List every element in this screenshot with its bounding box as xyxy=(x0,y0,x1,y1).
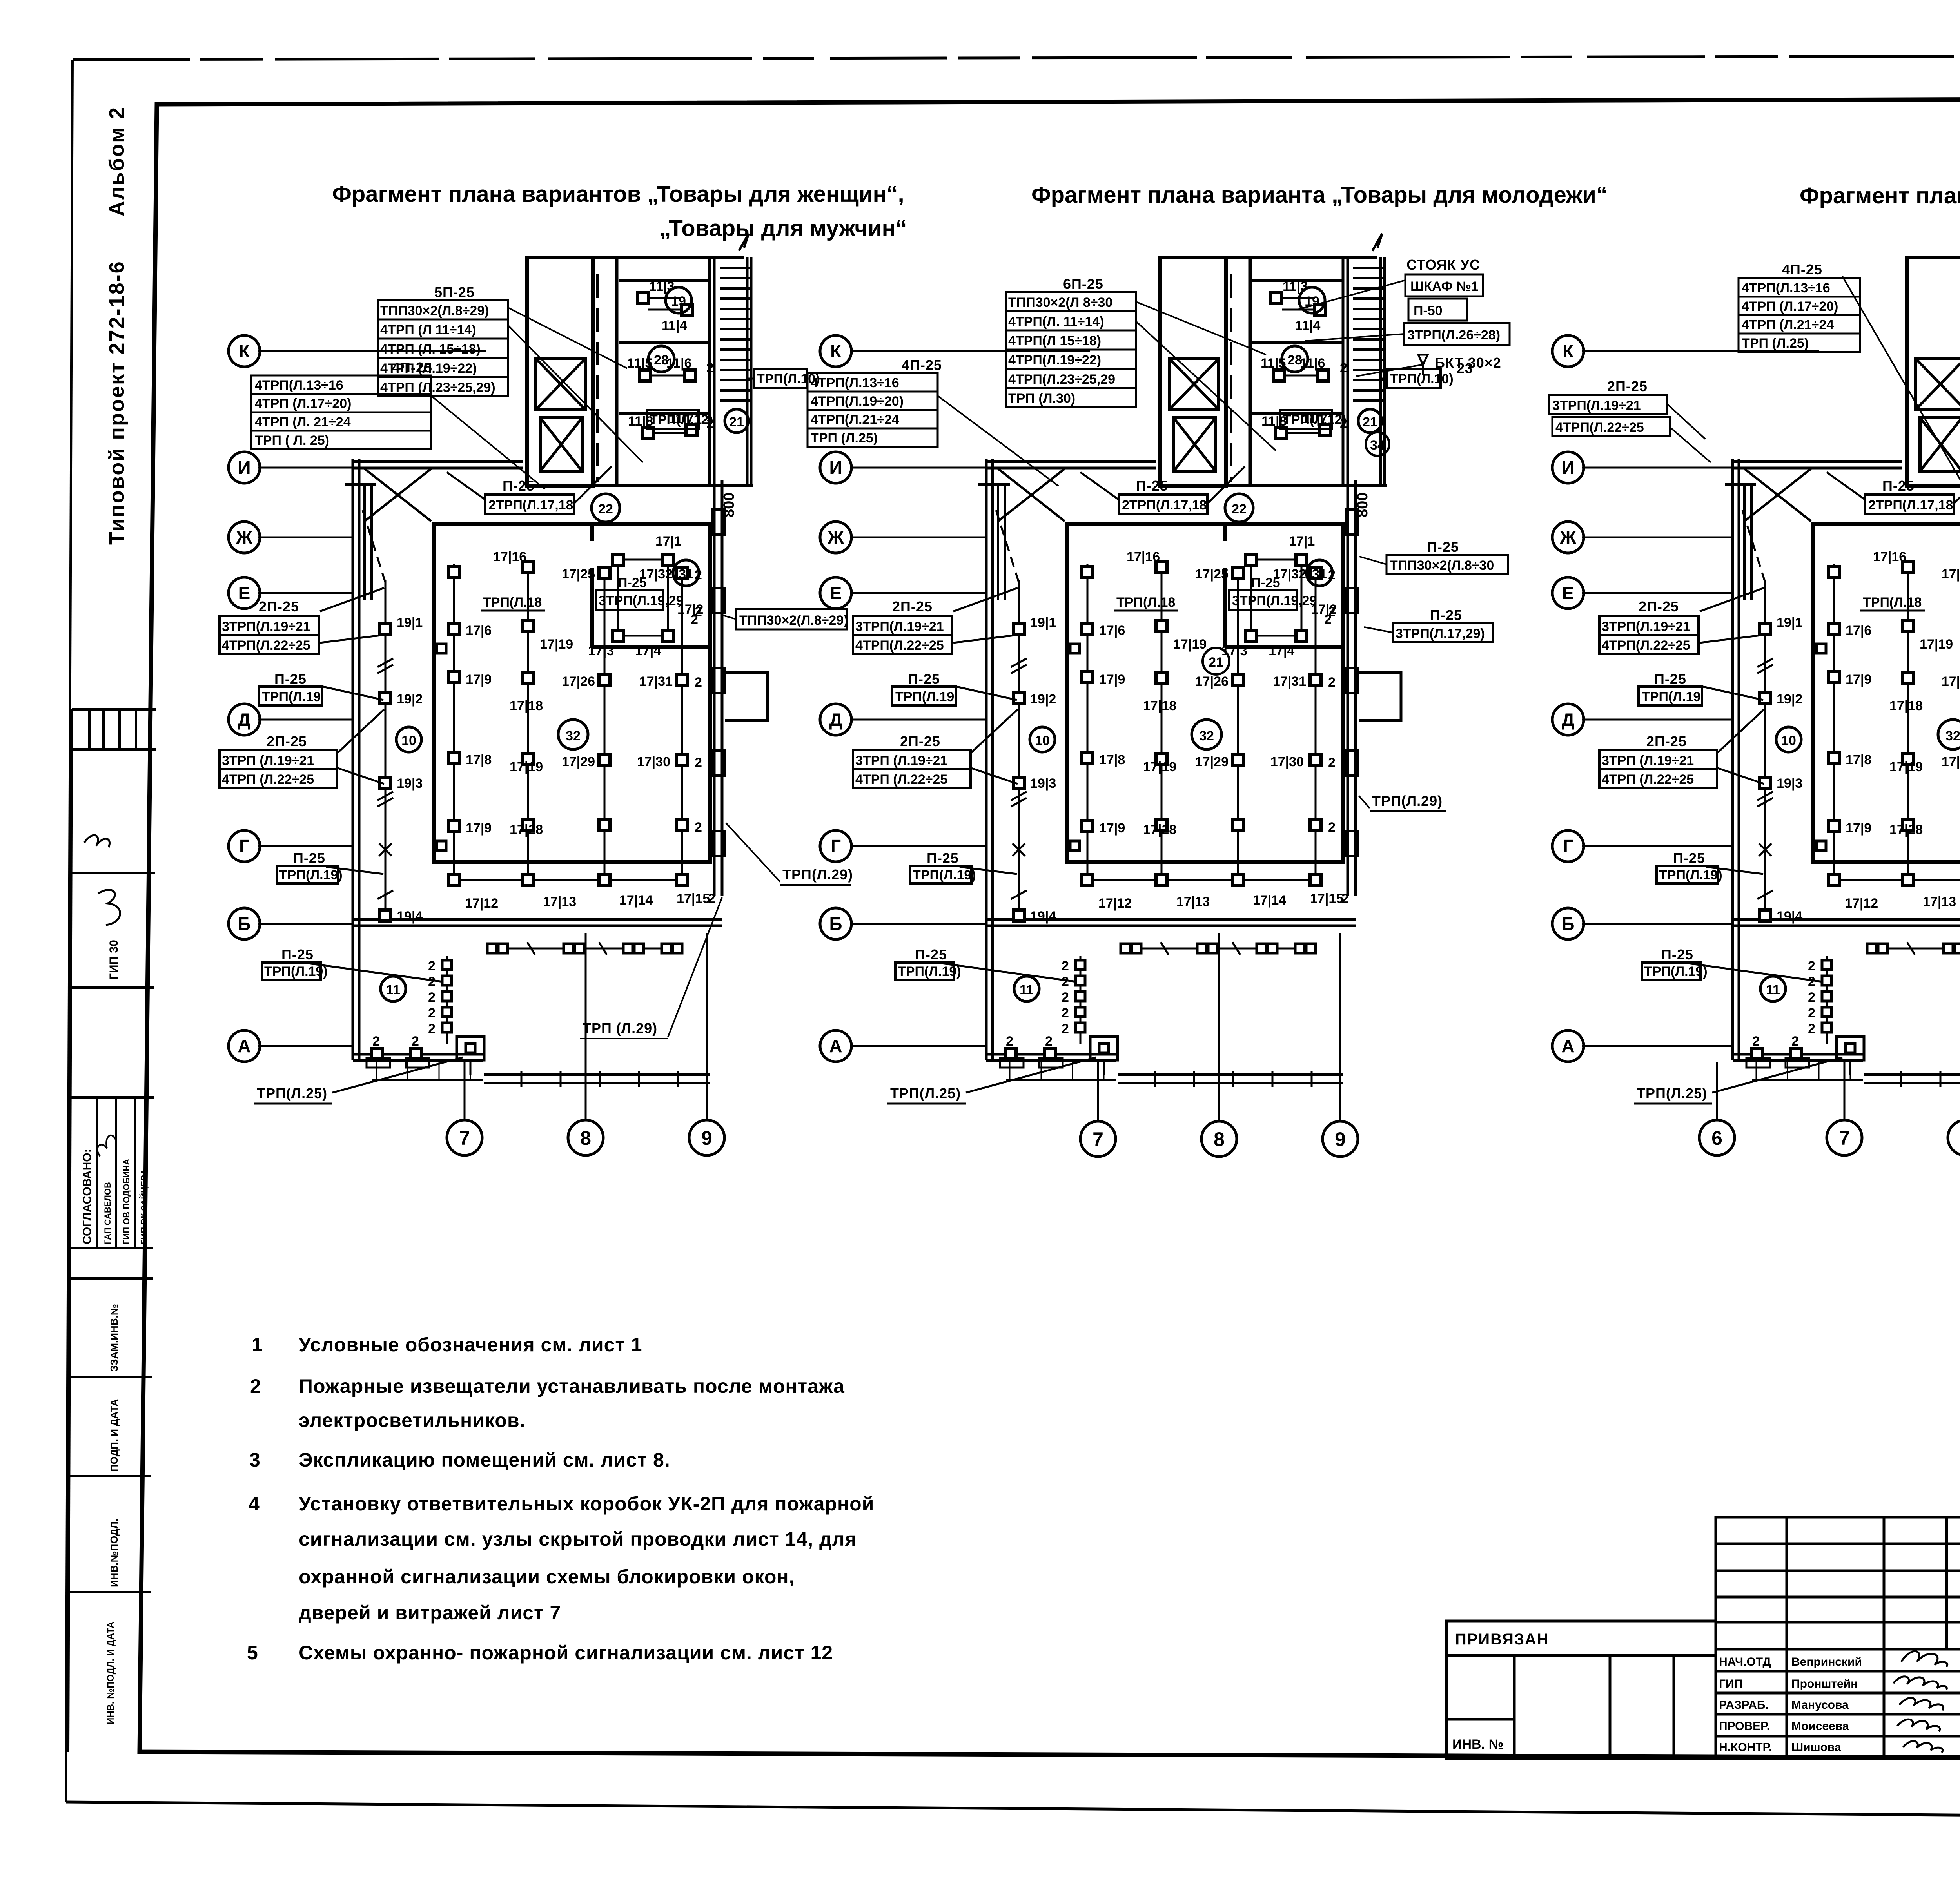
svg-text:3ТРП(Л.19,29: 3ТРП(Л.19,29 xyxy=(599,593,684,608)
svg-text:ТРП (Л.29): ТРП (Л.29) xyxy=(583,1020,657,1036)
svg-text:17|31: 17|31 xyxy=(639,674,673,689)
svg-text:ТРП (Л.30): ТРП (Л.30) xyxy=(1008,391,1075,406)
svg-text:2: 2 xyxy=(691,612,698,627)
svg-text:ТРП ( Л. 25): ТРП ( Л. 25) xyxy=(255,433,329,448)
svg-text:17|29: 17|29 xyxy=(562,754,595,769)
svg-text:Фрагмент плана варианта „ Ку: Фрагмент плана варианта „ Культтовары“ xyxy=(1800,183,1960,208)
svg-text:Фрагмент плана вариантов „Това: Фрагмент плана вариантов „Товары для жен… xyxy=(332,181,904,207)
svg-text:17|12: 17|12 xyxy=(465,896,498,911)
svg-text:19|2: 19|2 xyxy=(397,692,423,707)
svg-text:ГИП 30: ГИП 30 xyxy=(107,940,120,980)
svg-text:4ТРП (Л.21÷24: 4ТРП (Л.21÷24 xyxy=(1742,317,1834,332)
svg-text:ТРП(Л.29): ТРП(Л.29) xyxy=(1372,793,1443,809)
svg-text:Типовой проект 272-18-6: Типовой проект 272-18-6 xyxy=(105,260,129,545)
svg-text:ТРП(Л.19: ТРП(Л.19 xyxy=(262,689,321,704)
svg-text:ТПП30×2(Л 8÷30: ТПП30×2(Л 8÷30 xyxy=(1008,295,1112,310)
svg-text:9: 9 xyxy=(701,1127,712,1149)
svg-text:сигнализации см. узлы скрыто: сигнализации см. узлы скрытой проводки л… xyxy=(299,1528,857,1550)
svg-text:19|3: 19|3 xyxy=(397,776,423,791)
svg-text:19|1: 19|1 xyxy=(397,615,423,630)
svg-text:4ТРП(Л.22÷25: 4ТРП(Л.22÷25 xyxy=(1555,420,1644,435)
svg-text:5: 5 xyxy=(247,1642,258,1664)
svg-text:17|28: 17|28 xyxy=(510,822,543,837)
svg-text:17|9: 17|9 xyxy=(466,672,492,687)
svg-text:17|14: 17|14 xyxy=(619,893,653,908)
svg-text:ИНВ. №: ИНВ. № xyxy=(1452,1737,1503,1752)
svg-text:17|9: 17|9 xyxy=(466,821,492,836)
svg-text:ТРП(Л.18: ТРП(Л.18 xyxy=(483,595,542,610)
svg-text:2: 2 xyxy=(706,361,714,375)
svg-text:П-25: П-25 xyxy=(1430,607,1462,623)
svg-text:17|13: 17|13 xyxy=(543,894,576,909)
svg-text:6П-25: 6П-25 xyxy=(1063,276,1103,292)
svg-text:П-25: П-25 xyxy=(281,946,314,963)
svg-text:НАЧ.ОТД: НАЧ.ОТД xyxy=(1719,1655,1771,1668)
svg-text:6: 6 xyxy=(1711,1127,1722,1149)
svg-text:ТПП30×2(Л.8÷29): ТПП30×2(Л.8÷29) xyxy=(380,303,489,318)
svg-text:17|6: 17|6 xyxy=(466,623,492,638)
svg-text:3ТРП (Л.19÷21: 3ТРП (Л.19÷21 xyxy=(222,753,314,768)
svg-text:3ТРП(Л.26÷28): 3ТРП(Л.26÷28) xyxy=(1407,328,1500,343)
svg-text:ГИП ОВ ПОДОБИНА: ГИП ОВ ПОДОБИНА xyxy=(122,1159,131,1244)
svg-text:3ТРП(Л.19÷21: 3ТРП(Л.19÷21 xyxy=(222,619,310,634)
svg-text:17|15: 17|15 xyxy=(677,891,710,906)
svg-text:34: 34 xyxy=(1370,438,1385,453)
svg-text:4ТРП(Л.21÷24: 4ТРП(Л.21÷24 xyxy=(811,412,899,427)
svg-text:4ТРП (Л. 21÷24: 4ТРП (Л. 21÷24 xyxy=(255,415,351,430)
svg-text:32: 32 xyxy=(566,729,581,743)
svg-text:17|25: 17|25 xyxy=(562,567,595,582)
svg-text:П-25: П-25 xyxy=(618,575,647,590)
svg-text:2: 2 xyxy=(412,1034,419,1049)
svg-text:11|4: 11|4 xyxy=(662,318,687,333)
svg-text:электросветильников.: электросветильников. xyxy=(299,1409,525,1431)
svg-text:17|3: 17|3 xyxy=(588,644,614,658)
svg-text:2: 2 xyxy=(250,1375,261,1397)
svg-text:2: 2 xyxy=(372,1034,380,1049)
svg-text:ШКАФ №1: ШКАФ №1 xyxy=(1410,279,1479,294)
svg-text:17|18: 17|18 xyxy=(510,698,543,713)
svg-text:Фрагмент плана варианта „Товар: Фрагмент плана варианта „Товары для моло… xyxy=(1031,182,1608,208)
svg-text:ТРП(Л.12): ТРП(Л.12) xyxy=(650,412,713,427)
svg-text:Экспликацию помещений см.: Экспликацию помещений см. лист 8. xyxy=(299,1449,670,1471)
svg-text:СОГЛАСОВАНО:: СОГЛАСОВАНО: xyxy=(81,1149,94,1244)
svg-text:ТРП(Л.19): ТРП(Л.19) xyxy=(279,868,343,883)
svg-text:4ТРП(Л.23÷25,29: 4ТРП(Л.23÷25,29 xyxy=(1008,372,1115,387)
svg-text:3: 3 xyxy=(249,1449,261,1471)
svg-text:ГИП: ГИП xyxy=(1719,1677,1742,1690)
svg-text:Вепринский: Вепринский xyxy=(1791,1655,1862,1668)
svg-text:ИНВ.№ПОДЛ.: ИНВ.№ПОДЛ. xyxy=(108,1519,120,1587)
svg-text:7: 7 xyxy=(1839,1127,1850,1149)
svg-text:Условные обозначения см. ли: Условные обозначения см. лист 1 xyxy=(299,1334,642,1356)
svg-text:3ТРП(Л.17,29): 3ТРП(Л.17,29) xyxy=(1396,626,1485,641)
svg-text:4П-25: 4П-25 xyxy=(902,357,942,373)
svg-text:П-25: П-25 xyxy=(293,850,325,866)
svg-text:дверей и витражей лист 7: дверей и витражей лист 7 xyxy=(299,1602,561,1624)
svg-text:2: 2 xyxy=(695,755,702,770)
svg-text:17|19: 17|19 xyxy=(510,760,543,774)
svg-text:ПРОВЕР.: ПРОВЕР. xyxy=(1719,1720,1770,1733)
svg-text:17|1: 17|1 xyxy=(655,534,681,549)
svg-text:Альбом 2: Альбом 2 xyxy=(105,106,129,216)
svg-text:4ТРП(Л.22÷25: 4ТРП(Л.22÷25 xyxy=(222,638,310,653)
svg-text:4П-25: 4П-25 xyxy=(1782,261,1822,277)
svg-text:ПРИВЯЗАН: ПРИВЯЗАН xyxy=(1455,1631,1549,1648)
svg-text:4ТРП (Л. 15÷18): 4ТРП (Л. 15÷18) xyxy=(380,342,481,357)
svg-text:Шишова: Шишова xyxy=(1791,1741,1841,1754)
svg-text:21: 21 xyxy=(1209,655,1223,670)
svg-text:2: 2 xyxy=(708,891,715,906)
svg-text:охранной сигнализации схе: охранной сигнализации схемы блокировки о… xyxy=(299,1566,795,1588)
svg-text:8: 8 xyxy=(580,1127,591,1149)
svg-text:ИНВ. №ПОДЛ. И ДАТА: ИНВ. №ПОДЛ. И ДАТА xyxy=(105,1621,116,1724)
svg-text:„Товары для мужчин“: „Товары для мужчин“ xyxy=(659,216,907,241)
svg-text:СТОЯК УС: СТОЯК УС xyxy=(1406,257,1480,273)
svg-text:17|26: 17|26 xyxy=(562,674,595,689)
svg-text:4ТРП (Л 11÷14): 4ТРП (Л 11÷14) xyxy=(380,323,476,337)
svg-text:4ТРП (Л.22÷25: 4ТРП (Л.22÷25 xyxy=(222,772,314,787)
svg-text:2П-25: 2П-25 xyxy=(259,598,299,615)
svg-text:3ТРП(Л.19÷21: 3ТРП(Л.19÷21 xyxy=(1552,398,1641,413)
svg-text:23: 23 xyxy=(1457,360,1473,376)
svg-text:ЗЗАМ.ИНВ.№: ЗЗАМ.ИНВ.№ xyxy=(108,1304,120,1372)
svg-text:Пожарные извещатели устанавли: Пожарные извещатели устанавливать после … xyxy=(299,1375,845,1397)
svg-text:Манусова: Манусова xyxy=(1791,1699,1849,1711)
svg-text:4ТРП(Л. 11÷14): 4ТРП(Л. 11÷14) xyxy=(1008,314,1104,329)
svg-text:7: 7 xyxy=(1093,1128,1103,1150)
svg-text:ТРП(Л.19): ТРП(Л.19) xyxy=(264,964,328,979)
svg-text:11: 11 xyxy=(386,983,400,997)
svg-text:2П-25: 2П-25 xyxy=(267,733,307,749)
svg-text:П-25: П-25 xyxy=(503,478,535,494)
svg-text:ГИП ВК ЗАЙЦЕВА: ГИП ВК ЗАЙЦЕВА xyxy=(139,1169,149,1244)
svg-text:2: 2 xyxy=(695,675,702,690)
svg-text:2: 2 xyxy=(695,820,702,835)
svg-text:8: 8 xyxy=(1214,1128,1225,1150)
svg-text:ПОДП. И ДАТА: ПОДП. И ДАТА xyxy=(108,1399,120,1472)
svg-text:17|8: 17|8 xyxy=(466,752,492,767)
svg-text:2ТРП(Л.17,18: 2ТРП(Л.17,18 xyxy=(488,498,573,513)
svg-text:800: 800 xyxy=(721,493,737,517)
svg-text:22: 22 xyxy=(598,502,613,517)
svg-text:П-50: П-50 xyxy=(1414,303,1443,318)
svg-text:1: 1 xyxy=(252,1334,263,1356)
svg-text:4ТРП (Л.23÷25,29): 4ТРП (Л.23÷25,29) xyxy=(380,380,495,395)
svg-text:4: 4 xyxy=(249,1493,260,1515)
svg-text:4ТРП(Л.19÷22): 4ТРП(Л.19÷22) xyxy=(1008,353,1101,368)
svg-text:9: 9 xyxy=(1335,1128,1346,1150)
svg-text:П-25: П-25 xyxy=(274,671,307,687)
svg-text:28: 28 xyxy=(654,353,669,368)
svg-text:17|16: 17|16 xyxy=(493,549,526,564)
svg-text:П-25: П-25 xyxy=(1427,539,1459,555)
svg-text:17|4: 17|4 xyxy=(635,644,661,658)
svg-text:19: 19 xyxy=(671,294,686,309)
svg-text:7: 7 xyxy=(459,1127,470,1149)
svg-text:31: 31 xyxy=(679,567,693,582)
svg-text:2: 2 xyxy=(428,974,436,989)
svg-text:4ТРП(Л 15÷18): 4ТРП(Л 15÷18) xyxy=(1008,334,1101,348)
svg-text:ГАП САВЕЛОВ: ГАП САВЕЛОВ xyxy=(103,1182,113,1244)
svg-text:ТПП30×2(Л.8÷30: ТПП30×2(Л.8÷30 xyxy=(1390,558,1494,573)
svg-text:2: 2 xyxy=(428,1006,436,1021)
svg-text:21: 21 xyxy=(729,415,744,430)
svg-text:ТРП(Л.25): ТРП(Л.25) xyxy=(257,1085,327,1101)
svg-text:2: 2 xyxy=(428,959,436,974)
svg-text:ТПП30×2(Л.8÷29): ТПП30×2(Л.8÷29) xyxy=(739,613,848,628)
svg-text:Моисеева: Моисеева xyxy=(1791,1720,1849,1733)
svg-text:4ТРП (Л.17÷20): 4ТРП (Л.17÷20) xyxy=(255,396,351,411)
svg-text:РАЗРАБ.: РАЗРАБ. xyxy=(1719,1699,1769,1711)
svg-text:Схемы охранно- пожарной си: Схемы охранно- пожарной сигнализации см.… xyxy=(299,1642,833,1664)
svg-text:17|30: 17|30 xyxy=(637,754,670,769)
svg-text:Пронштейн: Пронштейн xyxy=(1791,1677,1858,1690)
svg-text:2: 2 xyxy=(428,1021,436,1036)
svg-text:19|4: 19|4 xyxy=(397,909,423,924)
svg-text:2: 2 xyxy=(428,990,436,1005)
svg-text:Установку ответвительных ко: Установку ответвительных коробок УК-2П д… xyxy=(299,1493,874,1515)
svg-text:5П-25: 5П-25 xyxy=(434,284,475,300)
svg-text:4П-25: 4П-25 xyxy=(392,359,432,375)
svg-text:Н.КОНТР.: Н.КОНТР. xyxy=(1719,1741,1772,1754)
svg-text:17|19: 17|19 xyxy=(540,637,573,652)
svg-text:4ТРП(Л.13÷16: 4ТРП(Л.13÷16 xyxy=(1742,281,1830,296)
svg-text:10: 10 xyxy=(401,733,416,748)
svg-text:4ТРП (Л.17÷20): 4ТРП (Л.17÷20) xyxy=(1742,299,1838,314)
svg-text:4ТРП(Л.13÷16: 4ТРП(Л.13÷16 xyxy=(255,378,343,393)
svg-text:ТРП(Л.29): ТРП(Л.29) xyxy=(782,867,853,883)
svg-text:ТРП (Л.25): ТРП (Л.25) xyxy=(811,431,878,446)
svg-text:4ТРП(Л.13÷16: 4ТРП(Л.13÷16 xyxy=(811,375,899,390)
svg-text:4ТРП(Л.19÷20): 4ТРП(Л.19÷20) xyxy=(811,394,904,409)
svg-text:2П-25: 2П-25 xyxy=(1607,378,1648,394)
svg-text:ТРП (Л.25): ТРП (Л.25) xyxy=(1742,336,1809,351)
